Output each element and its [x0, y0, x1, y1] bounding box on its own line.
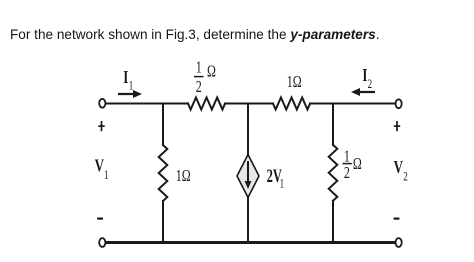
svg-text:1: 1	[104, 169, 108, 183]
wire bottom	[106, 241, 396, 244]
wire left branch lower	[162, 201, 164, 241]
svg-text:Ω: Ω	[207, 63, 216, 81]
label + (right)	[394, 121, 400, 131]
terminal port circle bottom-right	[396, 238, 402, 247]
svg-text:1: 1	[196, 59, 202, 77]
svg-text:V: V	[394, 158, 404, 177]
wire right branch lower	[332, 201, 334, 241]
resistor 1/2 ohm (right, vertical)	[329, 145, 338, 201]
svg-text:2: 2	[196, 78, 202, 96]
dependent current source 2V1 (diamond)	[237, 155, 259, 198]
svg-text:2: 2	[344, 164, 350, 182]
resistor 1/2 ohm (top left, horizontal)	[188, 98, 225, 110]
svg-text:1: 1	[129, 79, 133, 93]
wire top-right segment	[310, 103, 395, 105]
current I1 arrow	[118, 93, 135, 95]
wire right branch upper	[332, 104, 334, 145]
wire top-left segment	[106, 103, 189, 105]
terminal port circle top-right	[396, 99, 402, 108]
svg-text:I: I	[123, 68, 128, 87]
wire top-middle segment	[225, 103, 273, 105]
svg-text:1Ω: 1Ω	[176, 167, 191, 185]
terminal port circle bottom-left	[99, 238, 105, 247]
svg-text:Ω: Ω	[353, 155, 362, 173]
svg-text:2: 2	[403, 170, 407, 184]
problem statement text	[10, 27, 380, 42]
label + (left)	[98, 121, 104, 131]
svg-text:1: 1	[280, 177, 284, 191]
terminal port circle top-left	[99, 99, 105, 108]
svg-text:1Ω: 1Ω	[287, 73, 302, 91]
svg-text:2: 2	[368, 78, 372, 92]
wire middle branch upper	[247, 104, 249, 155]
wire middle branch lower	[247, 198, 249, 241]
resistor 1 ohm (top right, horizontal)	[273, 98, 310, 110]
current I2 arrow	[358, 91, 375, 93]
wire left branch upper	[162, 104, 164, 146]
label - (left)	[97, 218, 103, 220]
label - (right)	[394, 218, 400, 220]
resistor 1 ohm (left, vertical)	[159, 145, 168, 201]
dependent source arrow (downward)	[247, 161, 249, 182]
